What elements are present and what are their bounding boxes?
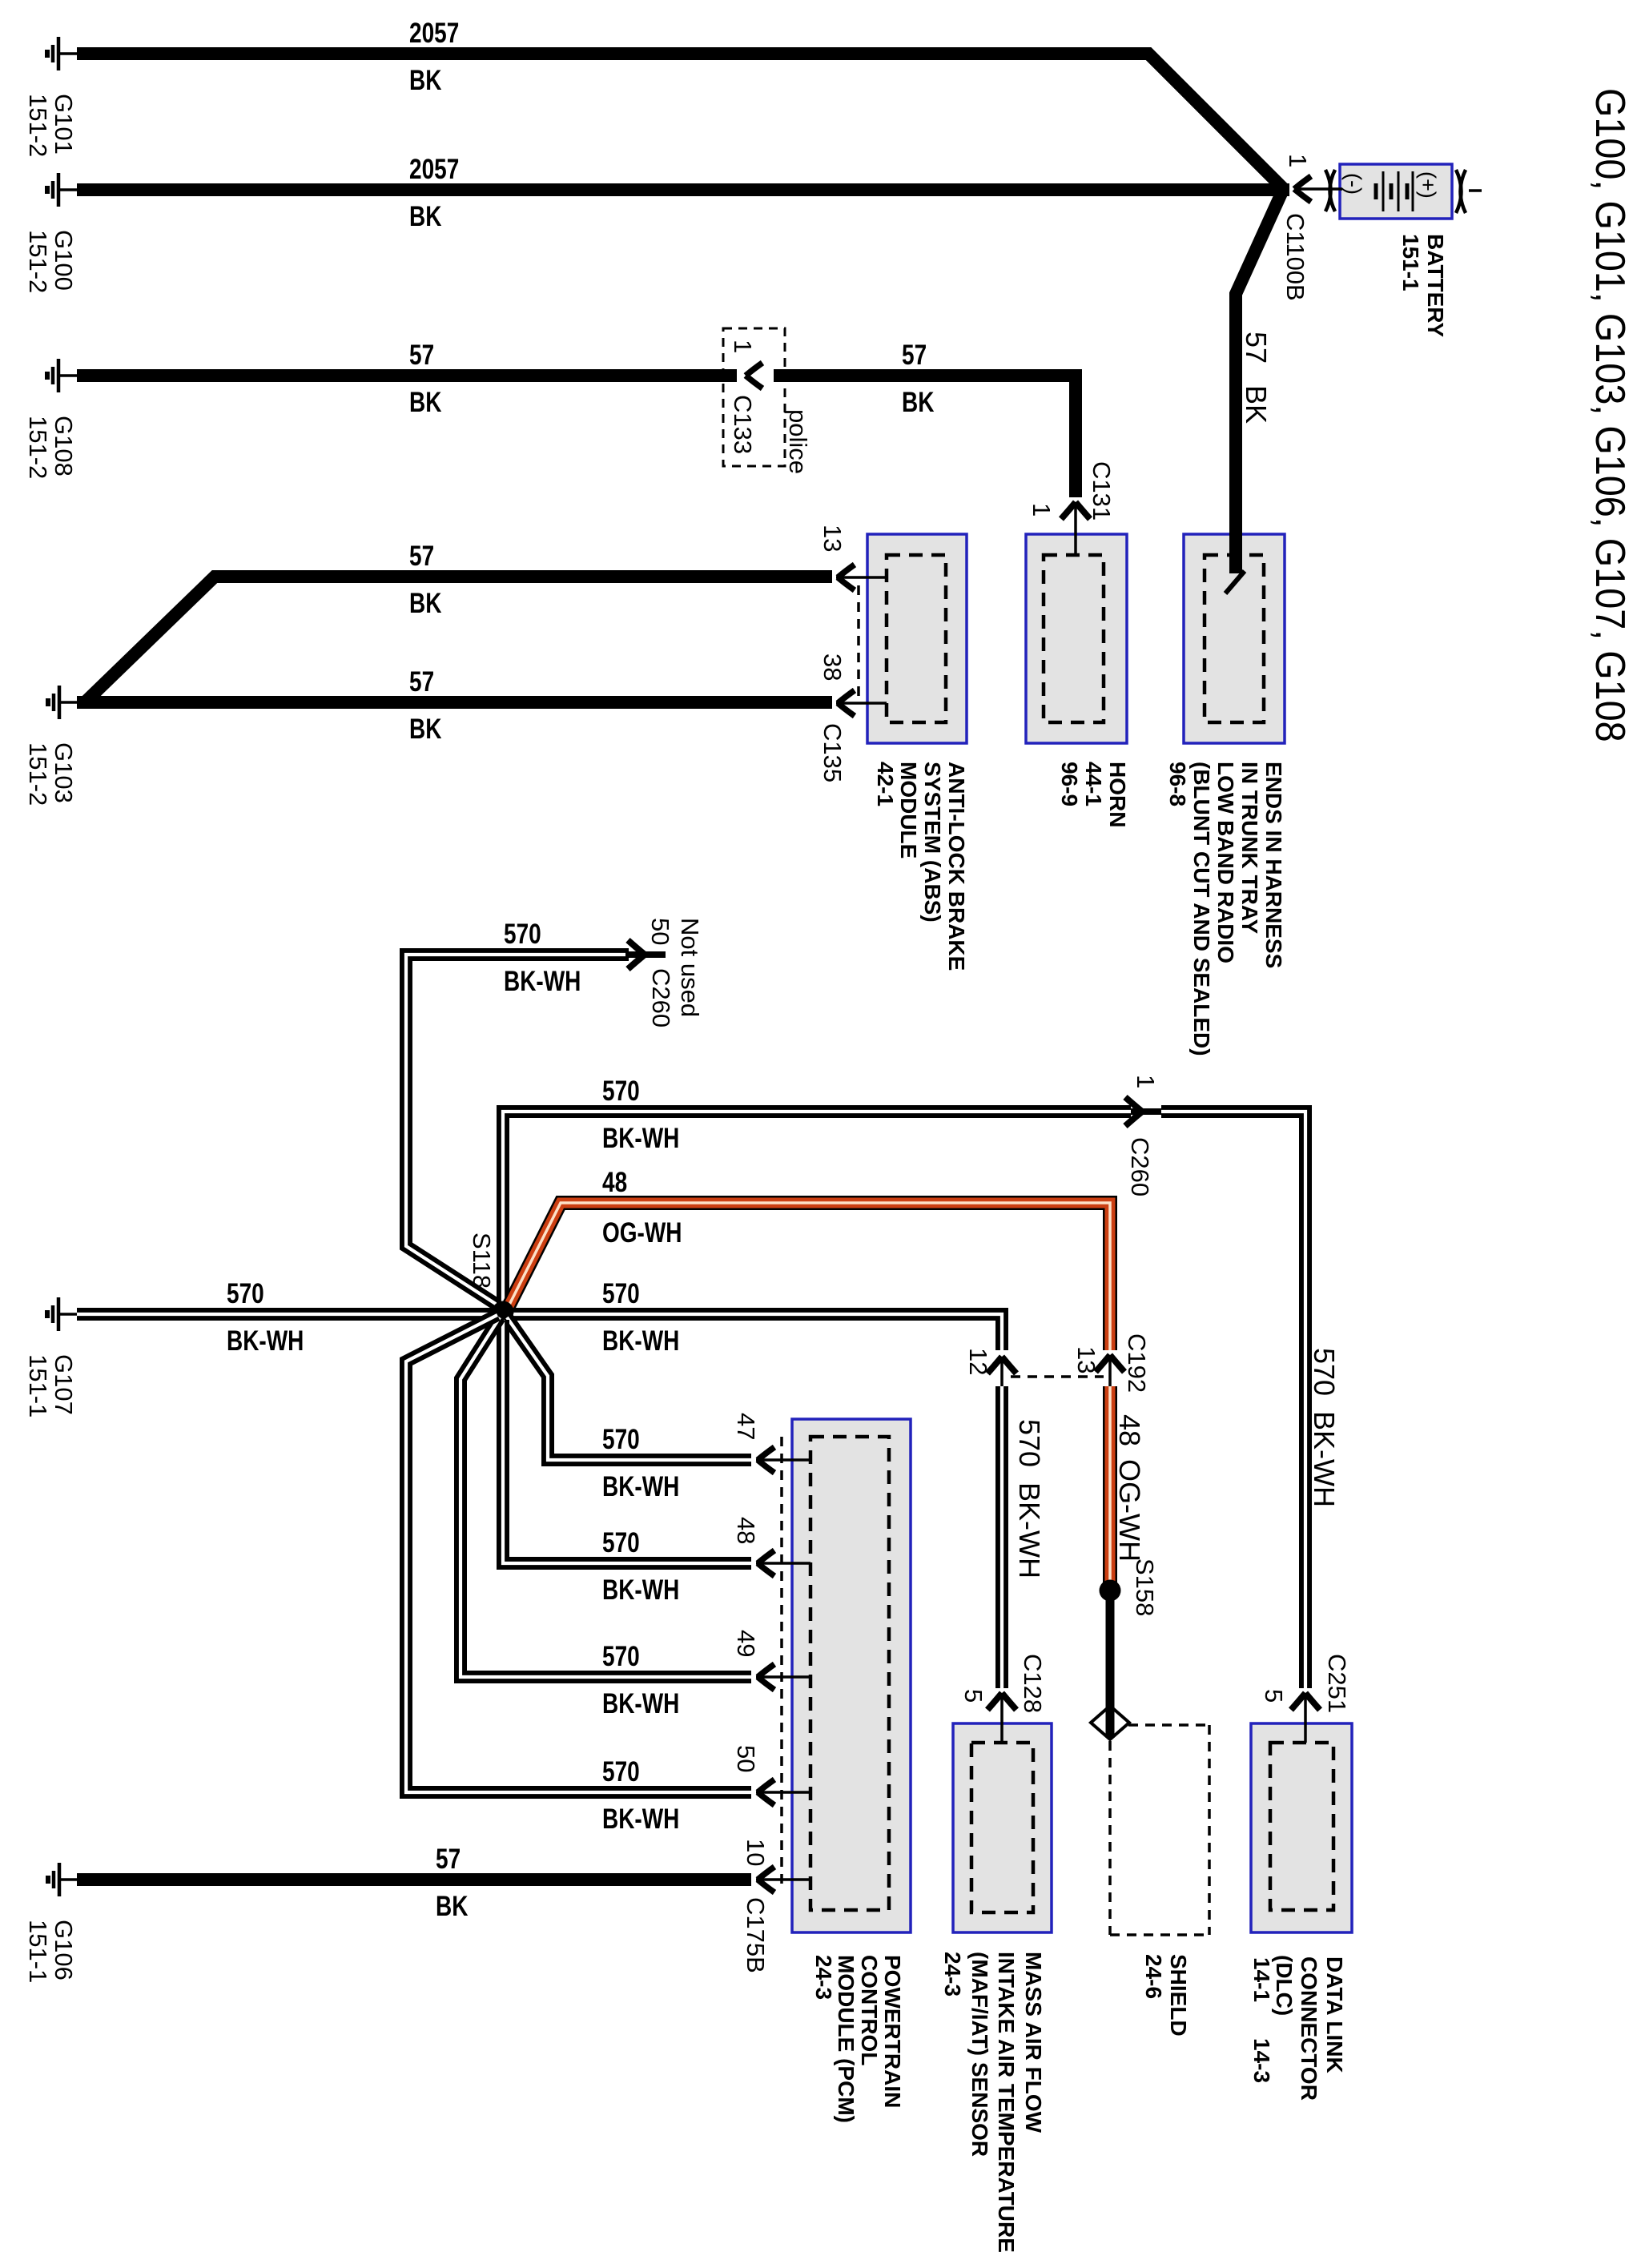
shield ground symbol diamond bbox=[1091, 1706, 1129, 1739]
label C1100B bbox=[1281, 213, 1309, 301]
connector C135 arrow pin 38 bbox=[838, 690, 855, 716]
svg-text:24-6: 24-6 bbox=[1141, 1954, 1166, 1999]
svg-text:57: 57 bbox=[902, 339, 927, 371]
label pin 50 not used bbox=[646, 918, 674, 945]
label 57 BK (ABS pin13 wire) bbox=[409, 540, 442, 619]
wire 570 BK-WH S118 to PCM pin 47 bbox=[507, 1317, 751, 1460]
connector C260 pin 1 arrow bbox=[1125, 1097, 1163, 1126]
svg-text:BK-WH: BK-WH bbox=[1308, 1411, 1341, 1507]
label ENDS IN HARNESS IN TRUNK TRAY LOW BAND RADIO (BLUNT CUT AND SEALED) 96-8 bbox=[1165, 762, 1286, 1056]
svg-text:151-1: 151-1 bbox=[24, 1354, 52, 1417]
label pin 1 of C131 bbox=[1028, 503, 1056, 517]
svg-text:BK: BK bbox=[902, 386, 935, 418]
label 570 BK-WH (C260 wire) bbox=[602, 1075, 679, 1154]
svg-text:57: 57 bbox=[436, 1843, 461, 1875]
svg-text:1: 1 bbox=[1028, 503, 1056, 517]
svg-text:G107: G107 bbox=[50, 1354, 78, 1415]
connector C251 pin 5 arrow bbox=[1291, 1693, 1320, 1743]
svg-text:MODULE (PCM): MODULE (PCM) bbox=[834, 1955, 859, 2123]
svg-text:24-3: 24-3 bbox=[940, 1952, 965, 1997]
svg-text:BK: BK bbox=[409, 64, 442, 96]
svg-text:1: 1 bbox=[1284, 154, 1312, 167]
label G103 151-2 bbox=[24, 742, 78, 806]
svg-text:151-2: 151-2 bbox=[24, 94, 52, 157]
battery cells symbol bbox=[1376, 171, 1413, 211]
connector C192 dashed line bbox=[1011, 1375, 1104, 1378]
svg-text:14-1: 14-1 bbox=[1249, 1957, 1274, 2002]
svg-text:2057: 2057 bbox=[409, 17, 459, 49]
ground G108 bbox=[47, 359, 78, 392]
svg-text:G106: G106 bbox=[50, 1920, 78, 1980]
svg-text:DATA LINK: DATA LINK bbox=[1322, 1956, 1347, 2073]
svg-text:BK-WH: BK-WH bbox=[602, 1325, 679, 1357]
label C260 (not used) bbox=[647, 968, 675, 1027]
label 57 BK (C133 to C131 wire) bbox=[902, 339, 935, 418]
battery inline connector bracket right bbox=[1456, 170, 1482, 213]
svg-text:570: 570 bbox=[1308, 1348, 1341, 1396]
label G100 151-2 bbox=[24, 230, 78, 293]
svg-text:57: 57 bbox=[409, 540, 434, 572]
svg-text:570: 570 bbox=[602, 1526, 640, 1558]
wire 48 OG-WH C192 pin13 down to splice S158 bbox=[1103, 1386, 1117, 1582]
wire 570 BK-WH S118 to PCM pin 49 bbox=[461, 1317, 751, 1677]
svg-text:96-8: 96-8 bbox=[1165, 762, 1190, 806]
label 2057 BK (G101 wire) bbox=[409, 17, 459, 96]
label 57 BK (ABS pin38 wire) bbox=[409, 666, 442, 745]
svg-text:HORN: HORN bbox=[1105, 762, 1130, 827]
ground G101 bbox=[47, 37, 78, 70]
label C133 bbox=[729, 395, 757, 454]
wire 2057 BK from G101 to C1100B junction bbox=[77, 54, 1283, 188]
label DATA LINK CONNECTOR (DLC) 14-1 14-3 bbox=[1249, 1955, 1347, 2101]
svg-text:BK: BK bbox=[409, 386, 442, 418]
label 570 BK-WH (C192 pin12 wire) bbox=[602, 1277, 679, 1357]
svg-text:38: 38 bbox=[818, 653, 847, 681]
data link connector DLC box bbox=[1251, 1723, 1352, 1932]
connector C128 pin 5 arrow bbox=[987, 1693, 1016, 1743]
connector C192 pin 13 arrow bbox=[1096, 1355, 1124, 1386]
label 57 BK (battery down wire) bbox=[1240, 332, 1273, 424]
svg-text:C260: C260 bbox=[1126, 1137, 1154, 1196]
labels PCM pin numbers bbox=[732, 1413, 770, 1866]
svg-text:OG-WH: OG-WH bbox=[602, 1216, 682, 1249]
label pin 12 bbox=[964, 1348, 992, 1375]
svg-text:48: 48 bbox=[1113, 1414, 1146, 1446]
label pin 5 of C251 bbox=[1260, 1689, 1288, 1703]
label C135 bbox=[818, 723, 847, 782]
connector C135 arrow pin 13 bbox=[838, 565, 855, 590]
label C175B bbox=[742, 1897, 770, 1973]
svg-text:570: 570 bbox=[227, 1277, 264, 1309]
svg-text:C128: C128 bbox=[1019, 1654, 1047, 1713]
label 570 BK-WH (not used wire) bbox=[504, 918, 581, 997]
svg-text:SYSTEM (ABS): SYSTEM (ABS) bbox=[920, 762, 945, 923]
horn box bbox=[1026, 534, 1127, 743]
label BATTERY 151-1 bbox=[1398, 234, 1448, 337]
svg-text:151-2: 151-2 bbox=[24, 230, 52, 293]
ground G103 bbox=[48, 686, 79, 719]
wire 570 BK-WH S118 to PCM pin 50 bbox=[406, 1315, 751, 1792]
svg-text:CONNECTOR: CONNECTOR bbox=[1297, 1956, 1321, 2101]
label 48 OG-WH (vertical) bbox=[1113, 1414, 1146, 1562]
label pin 13 bbox=[818, 525, 847, 552]
blunt cut wire end slash bbox=[1225, 571, 1245, 593]
label pin 38 bbox=[818, 653, 847, 681]
svg-text:10: 10 bbox=[742, 1839, 770, 1866]
svg-text:5: 5 bbox=[959, 1689, 987, 1703]
svg-text:C135: C135 bbox=[818, 723, 847, 782]
shield dashed outline bbox=[1110, 1725, 1209, 1935]
wire 57 BK from G108 to C133 bbox=[77, 369, 737, 382]
mass air flow MAF/IAT sensor box bbox=[953, 1723, 1052, 1932]
connector C175B dashed line bbox=[780, 1437, 783, 1884]
label MASS AIR FLOW INTAKE AIR TEMPERATURE (MAF/IAT) SENSOR 24-3 bbox=[940, 1952, 1046, 2253]
ground G100 bbox=[47, 173, 78, 207]
label 57 BK (G106 wire) bbox=[436, 1843, 469, 1922]
svg-text:BK: BK bbox=[436, 1890, 469, 1922]
svg-text:C260: C260 bbox=[647, 968, 675, 1027]
svg-text:(-): (-) bbox=[1341, 173, 1365, 195]
svg-text:IN TRUNK TRAY: IN TRUNK TRAY bbox=[1237, 762, 1262, 935]
svg-text:BK-WH: BK-WH bbox=[602, 1803, 679, 1835]
svg-text:12: 12 bbox=[964, 1348, 992, 1375]
svg-text:G108: G108 bbox=[50, 416, 78, 477]
svg-text:BK: BK bbox=[1240, 385, 1273, 424]
svg-text:INTAKE AIR TEMPERATURE: INTAKE AIR TEMPERATURE bbox=[994, 1952, 1019, 2253]
svg-text:MASS AIR FLOW: MASS AIR FLOW bbox=[1021, 1952, 1046, 2133]
svg-text:151-1: 151-1 bbox=[24, 1920, 52, 1983]
label C251 bbox=[1323, 1654, 1351, 1713]
label pin 13 of C192 bbox=[1072, 1346, 1100, 1373]
svg-text:police: police bbox=[784, 409, 812, 474]
battery inline connector bracket left bbox=[1325, 170, 1335, 211]
wire stub into horn bbox=[1074, 502, 1077, 554]
wire 57 BK from G103 to ABS pin 38 bbox=[77, 696, 832, 709]
svg-text:POWERTRAIN: POWERTRAIN bbox=[880, 1955, 905, 2108]
wire 57 BK from C133 to horn C131 bbox=[774, 376, 1076, 497]
svg-text:CONTROL: CONTROL bbox=[857, 1955, 882, 2065]
wire 57 BK from G103 to ABS pin 13 bbox=[85, 577, 832, 702]
svg-text:(BLUNT CUT AND SEALED): (BLUNT CUT AND SEALED) bbox=[1189, 762, 1214, 1056]
label G108 151-2 bbox=[24, 416, 78, 479]
svg-text:BK-WH: BK-WH bbox=[227, 1325, 304, 1357]
wire 570 BK-WH S118 to not-used C260 pin 50 bbox=[406, 955, 629, 1307]
svg-text:C192: C192 bbox=[1123, 1333, 1151, 1393]
label battery minus terminal bbox=[1341, 173, 1365, 195]
svg-text:96-9: 96-9 bbox=[1057, 762, 1082, 806]
svg-text:BK: BK bbox=[409, 200, 442, 232]
label pin 5 of C128 bbox=[959, 1689, 987, 1703]
label G106 151-1 bbox=[24, 1920, 78, 1983]
wire 570 BK-WH S118 right to C192 pin 12 bbox=[508, 1314, 1002, 1350]
label 570 BK-WH (MAF vertical wire) bbox=[1013, 1419, 1046, 1578]
label ANTI-LOCK BRAKE SYSTEM (ABS) MODULE 42-1 bbox=[873, 762, 969, 971]
svg-text:49: 49 bbox=[732, 1630, 760, 1657]
splice node S118 bbox=[493, 1301, 514, 1323]
connector C133 (police) dashed box bbox=[723, 328, 785, 466]
label Not used bbox=[676, 918, 704, 1017]
label 2057 BK (G100 wire) bbox=[409, 153, 459, 232]
label 570 BK-WH (G107 wire) bbox=[227, 1277, 304, 1357]
svg-text:C1100B: C1100B bbox=[1281, 213, 1309, 301]
svg-text:151-2: 151-2 bbox=[24, 416, 52, 479]
svg-text:570: 570 bbox=[602, 1075, 640, 1107]
wire from S158 to shield bbox=[1106, 1598, 1115, 1738]
powertrain control module PCM box bbox=[792, 1419, 911, 1932]
wire 57 BK from junction down to trunk harness bbox=[1236, 190, 1283, 573]
wire 570 BK-WH from C260 to DLC C251 bbox=[1161, 1112, 1305, 1688]
anti-lock brake system ABS module box bbox=[867, 534, 967, 743]
label pin 1 of C133 bbox=[729, 340, 757, 353]
svg-text:2057: 2057 bbox=[409, 153, 459, 185]
wire 570 BK-WH S118 up to C260 pin 1 bbox=[503, 1112, 1131, 1307]
svg-text:BK-WH: BK-WH bbox=[602, 1122, 679, 1154]
splice node S158 bbox=[1100, 1580, 1121, 1602]
svg-text:570: 570 bbox=[602, 1423, 640, 1455]
svg-text:BK-WH: BK-WH bbox=[1013, 1482, 1046, 1578]
svg-text:48: 48 bbox=[732, 1517, 760, 1544]
wire 570 BK-WH from G107 to splice S118 bbox=[77, 1308, 498, 1321]
svg-text:ANTI-LOCK BRAKE: ANTI-LOCK BRAKE bbox=[944, 762, 969, 971]
label C131 bbox=[1088, 461, 1116, 521]
wire 570 BK-WH S118 to PCM pin 48 bbox=[503, 1320, 751, 1563]
svg-text:570: 570 bbox=[1013, 1419, 1046, 1467]
wire 570 BK-WH C192 pin12 down to MAF C128 bbox=[995, 1386, 1008, 1688]
svg-text:G101: G101 bbox=[50, 94, 78, 155]
svg-text:S158: S158 bbox=[1131, 1558, 1159, 1616]
svg-text:570: 570 bbox=[504, 918, 541, 950]
connector C131 arrow pin 1 bbox=[1061, 502, 1090, 519]
label S118 bbox=[468, 1233, 496, 1289]
svg-text:42-1: 42-1 bbox=[873, 762, 898, 806]
label 570 BK-WH (pin48 wire) bbox=[602, 1526, 679, 1606]
label HORN 44-1 96-9 bbox=[1057, 762, 1130, 827]
connector C260 pin 50 arrow (not used) bbox=[625, 940, 666, 969]
label S158 bbox=[1131, 1558, 1159, 1616]
ends-in-harness box bbox=[1184, 534, 1285, 743]
svg-text:C175B: C175B bbox=[742, 1897, 770, 1973]
svg-text:BK-WH: BK-WH bbox=[602, 1687, 679, 1719]
svg-text:G103: G103 bbox=[50, 742, 78, 803]
wire 48 OG-WH from S118 to C192 pin 13 bbox=[508, 1203, 1110, 1350]
label 570 BK-WH (pin47 wire) bbox=[602, 1423, 679, 1502]
svg-text:57: 57 bbox=[409, 339, 434, 371]
connector C133 arrow pin 1 bbox=[746, 363, 762, 388]
svg-text:151-2: 151-2 bbox=[24, 742, 52, 806]
svg-text:50: 50 bbox=[646, 918, 674, 945]
label pin 1 of C1100B bbox=[1284, 154, 1312, 167]
svg-text:47: 47 bbox=[732, 1413, 760, 1440]
label C192 bbox=[1123, 1333, 1151, 1393]
label pin 1 of C260 bbox=[1132, 1075, 1160, 1088]
svg-text:24-3: 24-3 bbox=[811, 1955, 836, 2000]
svg-text:LOW BAND RADIO: LOW BAND RADIO bbox=[1213, 762, 1238, 963]
svg-text:57: 57 bbox=[1240, 332, 1273, 364]
label police bbox=[784, 409, 812, 474]
svg-text:BK-WH: BK-WH bbox=[602, 1574, 679, 1606]
svg-text:OG-WH: OG-WH bbox=[1113, 1459, 1146, 1562]
svg-text:1: 1 bbox=[729, 340, 757, 353]
label 570 BK-WH (pin50 wire) bbox=[602, 1755, 679, 1835]
title G100, G101, G103, G106, G107, G108 bbox=[1587, 88, 1633, 742]
wire stub to battery bbox=[1294, 187, 1342, 191]
label SHIELD 24-6 bbox=[1141, 1954, 1191, 2037]
svg-text:G100, G101, G103, G106, G107,: G100, G101, G103, G106, G107, G108 bbox=[1587, 88, 1633, 742]
svg-text:151-1: 151-1 bbox=[1398, 234, 1423, 292]
svg-text:5: 5 bbox=[1260, 1689, 1288, 1703]
svg-text:48: 48 bbox=[602, 1166, 627, 1198]
svg-text:570: 570 bbox=[602, 1640, 640, 1672]
svg-text:(DLC): (DLC) bbox=[1272, 1955, 1297, 2016]
ground G106 bbox=[48, 1863, 79, 1896]
svg-text:MODULE: MODULE bbox=[896, 762, 921, 859]
svg-text:50: 50 bbox=[732, 1745, 760, 1772]
svg-text:S118: S118 bbox=[468, 1233, 496, 1289]
wire 2057 BK from G100 to C1100B junction bbox=[77, 183, 1289, 196]
svg-text:C131: C131 bbox=[1088, 461, 1116, 521]
svg-text:(MAF/IAT) SENSOR: (MAF/IAT) SENSOR bbox=[967, 1952, 992, 2157]
label POWERTRAIN CONTROL MODULE (PCM) 24-3 bbox=[811, 1955, 905, 2123]
label 570 BK-WH (pin49 wire) bbox=[602, 1640, 679, 1719]
connector C175B pin arrows 47 48 49 50 10 bbox=[756, 1447, 810, 1473]
label G107 151-1 bbox=[24, 1354, 78, 1417]
svg-text:Not used: Not used bbox=[676, 918, 704, 1017]
label 57 BK (G108 wire) bbox=[409, 339, 442, 418]
svg-text:13: 13 bbox=[818, 525, 847, 552]
battery B1 box bbox=[1340, 164, 1452, 219]
svg-text:570: 570 bbox=[602, 1755, 640, 1787]
wire 57 BK from G106 to PCM pin 10 bbox=[77, 1873, 751, 1886]
svg-text:1: 1 bbox=[1132, 1075, 1160, 1088]
label battery plus terminal bbox=[1416, 171, 1440, 199]
connector C135 dashed line bbox=[857, 585, 860, 698]
svg-text:BATTERY: BATTERY bbox=[1423, 234, 1448, 337]
svg-text:BK-WH: BK-WH bbox=[602, 1470, 679, 1502]
connector C1100B arrow pin 1 bbox=[1294, 176, 1311, 202]
svg-text:C251: C251 bbox=[1323, 1654, 1351, 1713]
svg-text:BK: BK bbox=[409, 587, 442, 619]
svg-text:57: 57 bbox=[409, 666, 434, 698]
connector C192 pin 12 arrow bbox=[987, 1357, 1016, 1386]
svg-text:G100: G100 bbox=[50, 230, 78, 291]
svg-text:SHIELD: SHIELD bbox=[1166, 1954, 1191, 2037]
svg-text:570: 570 bbox=[602, 1277, 640, 1309]
svg-text:ENDS IN HARNESS: ENDS IN HARNESS bbox=[1261, 762, 1286, 968]
svg-text:C133: C133 bbox=[729, 395, 757, 454]
label 570 BK-WH (DLC vertical wire) bbox=[1308, 1348, 1341, 1507]
svg-text:13: 13 bbox=[1072, 1346, 1100, 1373]
svg-text:(+): (+) bbox=[1416, 171, 1440, 199]
label C128 bbox=[1019, 1654, 1047, 1713]
svg-text:BK-WH: BK-WH bbox=[504, 965, 581, 997]
label 48 OG-WH bbox=[602, 1166, 682, 1249]
ground G107 bbox=[47, 1297, 78, 1331]
svg-text:BK: BK bbox=[409, 713, 442, 745]
svg-text:14-3: 14-3 bbox=[1249, 2038, 1274, 2083]
label G101 151-2 bbox=[24, 94, 78, 157]
svg-text:44-1: 44-1 bbox=[1081, 762, 1106, 806]
label C260 bbox=[1126, 1137, 1154, 1196]
